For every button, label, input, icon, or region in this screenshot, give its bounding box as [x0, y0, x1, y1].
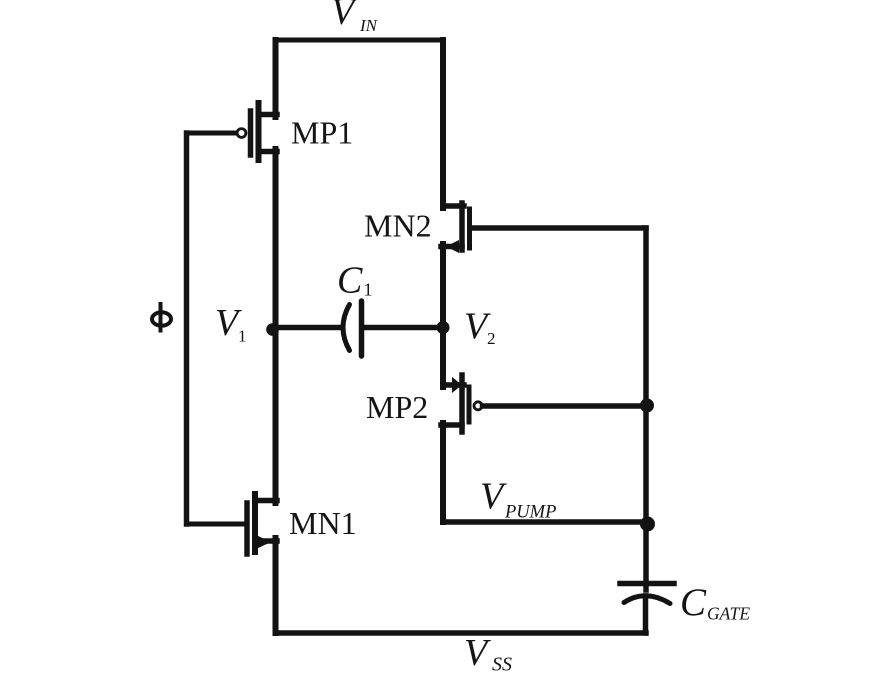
svg-text:C: C [680, 581, 707, 624]
wire MP1 source down to MN1 drain [273, 149, 279, 503]
node V1 junction dot [266, 323, 279, 336]
svg-text:IN: IN [359, 16, 379, 35]
svg-text:V: V [480, 476, 507, 518]
svg-text:C: C [337, 260, 363, 302]
wire left vertical: VIN to MP1 drain [273, 40, 279, 117]
wire MN2 gate to right rail [471, 225, 646, 231]
wire phi rail vertical [184, 133, 190, 524]
wire VSS bottom rail [276, 630, 647, 636]
wire VIN to MN2 drain [440, 40, 446, 208]
transistor MP2 [441, 375, 646, 432]
wire V1 to C1 left plate [272, 325, 343, 331]
transistor MN1 [247, 494, 277, 554]
label phi [152, 302, 171, 333]
wire phi to MN1 gate [187, 522, 248, 527]
wire right rail vertical [643, 228, 649, 590]
svg-text:PUMP: PUMP [504, 503, 556, 523]
wire VIN top rail [276, 38, 444, 43]
svg-text:2: 2 [487, 329, 496, 348]
wire C1 right plate to V2 [363, 325, 443, 331]
node MP2 gate junction dot [640, 399, 654, 413]
node V2 junction dot [437, 321, 450, 334]
svg-text:V: V [331, 0, 358, 33]
wire MN2 source to MP2 drain (through V2) [440, 244, 446, 387]
wire MP2 source down to VPUMP rail [440, 423, 446, 522]
wire VPUMP horizontal [443, 519, 646, 525]
svg-text:1: 1 [238, 327, 247, 346]
svg-text:MP1: MP1 [291, 115, 353, 151]
capacitor CGATE [620, 584, 674, 604]
svg-text:1: 1 [364, 280, 373, 300]
svg-text:SS: SS [492, 654, 512, 676]
capacitor C1 [343, 301, 362, 356]
svg-text:MN2: MN2 [364, 208, 432, 244]
wire MN1 source down to VSS rail [273, 538, 279, 633]
wire phi to MP1 gate [187, 131, 236, 136]
wire right rail below CGATE to VSS [643, 596, 649, 633]
svg-text:GATE: GATE [707, 604, 750, 624]
svg-text:V: V [464, 632, 491, 674]
node VPUMP junction dot [640, 517, 655, 532]
transistor MP1 [237, 103, 277, 160]
svg-text:MP2: MP2 [366, 389, 428, 425]
transistor MN2 [441, 203, 470, 253]
svg-text:MN1: MN1 [289, 505, 357, 541]
